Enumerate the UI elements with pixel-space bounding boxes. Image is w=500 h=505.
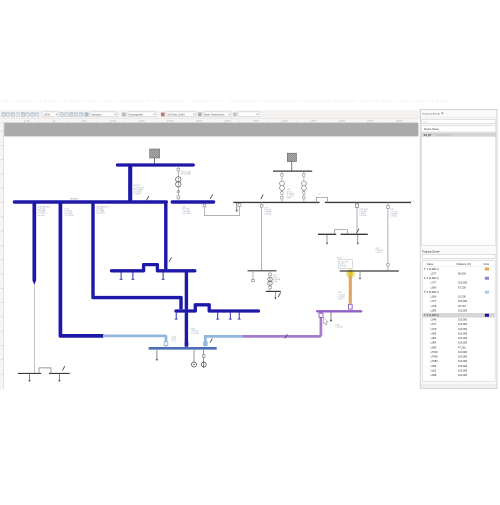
machine M1: [201, 350, 206, 368]
svg-text:R1_B7: R1_B7: [337, 258, 343, 260]
toolbar: [0, 110, 497, 118]
svg-text:100,000: 100,000: [458, 322, 468, 326]
svg-text:N2: N2: [412, 201, 414, 203]
busbar B10 (HV feed): [273, 170, 312, 172]
external grid symbol N2: [287, 153, 296, 171]
svg-text:100,000: 100,000: [458, 327, 468, 331]
svg-text:Protection Results: Protection Results: [422, 113, 441, 116]
label under B6: [335, 324, 343, 328]
svg-text:2 (0,300 s): 2 (0,300 s): [427, 276, 439, 280]
svg-text:Ik 2,8 kA: Ik 2,8 kA: [339, 265, 346, 268]
svg-text:Q 4 Mvar: Q 4 Mvar: [265, 213, 272, 216]
busbar B1 (110kV station A): [118, 163, 194, 166]
svg-text:P 1,7: P 1,7: [172, 341, 176, 343]
line L077 light blue segment west: [103, 336, 166, 347]
svg-text:L079: L079: [431, 327, 437, 331]
connector box light blue west: [164, 342, 168, 346]
svg-text:100,000: 100,000: [458, 299, 468, 303]
svg-text:Standard: Standard: [91, 113, 102, 116]
svg-text:L046: L046: [431, 318, 437, 322]
svg-text:L078: L078: [431, 304, 437, 308]
load drops under B4: [175, 313, 177, 320]
svg-text:SrT 40 MVA: SrT 40 MVA: [181, 172, 191, 175]
label bay B1: [134, 185, 145, 195]
svg-text:100 Netz 110kV: 100 Netz 110kV: [167, 113, 185, 116]
svg-text:L098: L098: [431, 373, 437, 377]
switch above B8 at feeder F1: [261, 195, 264, 199]
svg-text:L077: L077: [431, 299, 437, 303]
svg-text:5500: 5500: [369, 120, 375, 122]
label feeder V1: [38, 205, 51, 216]
switch on B2 left: [146, 196, 149, 200]
svg-text:3500: 3500: [254, 120, 260, 122]
generator G1: [192, 350, 197, 367]
svg-text:Distance (%): Distance (%): [457, 263, 471, 266]
load arrow under B5: [156, 350, 158, 359]
label V10: [359, 209, 369, 217]
svg-text:L080: L080: [431, 331, 437, 335]
switch on V4: [169, 257, 172, 261]
wire V5 B3 to B4: [185, 271, 188, 310]
svg-text:LT080: LT080: [431, 359, 439, 363]
svg-text:4500: 4500: [312, 120, 318, 122]
svg-text:Q 2 Mvar: Q 2 Mvar: [359, 214, 366, 217]
label feeder V3: [96, 205, 109, 214]
svg-text:Q 2,2 Mvar: Q 2,2 Mvar: [65, 215, 74, 217]
label left of V6: [172, 336, 177, 342]
svg-text:100,000: 100,000: [458, 336, 468, 340]
busbar B9: [248, 270, 277, 272]
fault glow on busbar B7: [345, 268, 356, 279]
label V9 top: [390, 209, 398, 217]
sub busbar S1 left: [18, 372, 41, 374]
svg-text:LT046: LT046: [431, 355, 439, 359]
label chain B9: [273, 275, 281, 283]
svg-text:I 0,04 kA: I 0,04 kA: [335, 326, 343, 329]
svg-text:26,710: 26,710: [458, 304, 466, 308]
transformer chain TxA: [280, 172, 285, 202]
label V9 bottom: [376, 248, 384, 254]
svg-text:Q 3 Mvar: Q 3 Mvar: [390, 215, 397, 218]
switch on B2 right: [210, 194, 213, 198]
switch at S1: [62, 366, 65, 370]
switch near B5: [210, 338, 213, 342]
feeder V3 (L080 west): [93, 202, 181, 309]
load arrow under B6: [330, 313, 332, 320]
svg-text:Distance Zone 4: Distance Zone 4: [436, 134, 452, 137]
combo network variant: [161, 112, 196, 117]
svg-text:100,000: 100,000: [458, 355, 468, 359]
switch on B11 right: [357, 229, 360, 233]
svg-text:t 1,20 s: t 1,20 s: [338, 298, 344, 301]
busbar B6 (purple station): [317, 310, 361, 312]
feeder V9 B8 to B7: [387, 202, 390, 270]
coupler jog between S1 segments: [39, 368, 51, 374]
svg-text:L084: L084: [431, 341, 437, 345]
svg-text:R1_B7: R1_B7: [424, 134, 432, 137]
svg-text:uk 6%: uk 6%: [273, 281, 278, 283]
svg-text:Device Name: Device Name: [424, 128, 440, 131]
svg-text:100,000: 100,000: [458, 368, 468, 372]
svg-text:80,000: 80,000: [458, 271, 466, 275]
wire V6 B4 to B5: [185, 313, 188, 347]
label feeder V2: [65, 209, 74, 217]
label left of orange line: [338, 292, 346, 300]
svg-text:3000: 3000: [226, 120, 232, 122]
svg-text:u 99,2 %: u 99,2 %: [376, 252, 383, 254]
svg-text:Name: Name: [427, 263, 434, 266]
load drop under B11: [326, 235, 328, 243]
svg-text:Schutzgeräte: Schutzgeräte: [128, 113, 143, 116]
svg-text:100,000: 100,000: [458, 373, 468, 377]
combo Schutzgeraete: [122, 112, 156, 117]
svg-text:Color: Color: [483, 263, 489, 266]
svg-text:100,000: 100,000: [458, 341, 468, 345]
svg-text:1000: 1000: [111, 120, 117, 122]
svg-text:L069: L069: [431, 295, 437, 299]
svg-text:4 (1,200 s): 4 (1,200 s): [427, 313, 439, 317]
connector box orange to purple: [348, 304, 352, 309]
toolbar icon cluster 2: [60, 113, 87, 117]
label F1: [265, 207, 273, 215]
connector box V6 on B5: [185, 342, 189, 346]
mouse cursor: [324, 318, 329, 326]
label feeder B2R: [182, 207, 191, 215]
switch on purple line: [285, 334, 288, 338]
svg-text:L080: L080: [431, 285, 437, 289]
svg-text:100,000: 100,000: [458, 359, 468, 363]
load arrow under S1 right: [58, 374, 60, 380]
external grid symbol N1: [150, 149, 160, 163]
svg-text:SS 20kV: SS 20kV: [70, 198, 78, 200]
load drops under B3: [120, 272, 122, 279]
combo Basis Netzbereich: [198, 112, 231, 117]
svg-text:LT006: LT006: [431, 350, 439, 354]
feeder F1 B8 to B9: [261, 202, 263, 270]
svg-text:6000: 6000: [397, 120, 403, 122]
svg-text:Q 1,0 Mvar: Q 1,0 Mvar: [182, 213, 191, 215]
busbar B12 (LV): [266, 290, 281, 292]
label T1: [181, 171, 191, 175]
busbar B3 with section jog: [112, 265, 195, 271]
switch at B12: [278, 293, 281, 297]
svg-text:100,000: 100,000: [458, 308, 468, 312]
svg-text:cos 0,96: cos 0,96: [38, 215, 45, 217]
svg-text:3 (0,600 s): 3 (0,600 s): [427, 290, 439, 294]
feeder V1 (L046): [32, 202, 36, 281]
svg-text:47,281: 47,281: [458, 345, 466, 349]
svg-text:100,000: 100,000: [458, 318, 468, 322]
label right of V6: [191, 329, 199, 335]
feeder V10 B8 to B11: [356, 202, 358, 234]
svg-text:P 2,6 MW: P 2,6 MW: [191, 333, 199, 335]
svg-text:Q 1,6 Mvar: Q 1,6 Mvar: [96, 213, 105, 215]
svg-text:67,200: 67,200: [458, 285, 466, 289]
busbar B8 (HV main) with jog: [233, 201, 319, 203]
sub busbar S1 right: [49, 372, 70, 374]
canvas margin band: [4, 123, 418, 137]
distribution transformer chain under B9: [268, 271, 272, 291]
line L078 purple segment: [242, 312, 321, 336]
svg-text:Tripping Zones: Tripping Zones: [422, 249, 440, 253]
vertical ruler: [0, 123, 4, 389]
wire V0 busbar B1 to busbar B2: [128, 165, 132, 202]
svg-text:Filter: Filter: [423, 121, 428, 124]
label between transformers: [287, 189, 295, 199]
svg-text:1 (0,000 s): 1 (0,000 s): [427, 267, 439, 271]
wire grey continuation of V1: [33, 285, 35, 373]
tie wire navy B2R to B8: [203, 203, 241, 216]
feeder V2 (L077 west): [60, 202, 103, 336]
feeder V4 (to busbar B3): [164, 202, 167, 269]
busbar B5 (station light blue): [149, 347, 217, 350]
zoom combo 100%: [42, 112, 58, 117]
svg-text:2000: 2000: [169, 120, 175, 122]
svg-text:L082: L082: [431, 336, 437, 340]
tripping zones table rows: [423, 267, 495, 377]
combo Standard: [85, 112, 117, 117]
busbar B7: [340, 270, 399, 272]
line L082 orange segment: [349, 276, 352, 304]
svg-text:100,000: 100,000: [458, 281, 468, 285]
svg-text:100,000: 100,000: [458, 350, 468, 354]
svg-text:L077: L077: [431, 271, 437, 275]
svg-text:2500: 2500: [197, 120, 203, 122]
svg-text:L085: L085: [431, 345, 437, 349]
connector box light blue east: [204, 342, 208, 346]
svg-text:100,000: 100,000: [458, 364, 468, 368]
busbar B2 right segment: [172, 200, 213, 203]
svg-text:Basis Netzbereich: Basis Netzbereich: [204, 113, 225, 116]
load arrow at B8 left end: [236, 203, 238, 210]
svg-text:1500: 1500: [140, 120, 146, 122]
busbar B4 with section jog: [176, 305, 258, 311]
svg-text:YNd5: YNd5: [287, 198, 291, 200]
load drop under B9: [252, 271, 254, 279]
connector box on purple riser: [319, 313, 323, 317]
combo empty: [233, 112, 259, 117]
svg-text:16,200: 16,200: [458, 295, 466, 299]
svg-text:-500: -500: [26, 120, 31, 122]
transformer T1 feeder: [176, 167, 181, 200]
svg-text:La02: La02: [431, 368, 437, 372]
svg-text:L089: L089: [431, 364, 437, 368]
load arrow under B12: [274, 292, 276, 297]
load arrow under S1 left: [29, 374, 31, 380]
line L077 light blue segment east: [205, 336, 242, 346]
svg-text:I 0,36 kA: I 0,36 kA: [134, 193, 142, 196]
svg-text:100,000: 100,000: [458, 331, 468, 335]
svg-text:L080: L080: [431, 308, 437, 312]
horizontal ruler: [0, 118, 418, 122]
svg-text:L077: L077: [431, 322, 437, 326]
transformer chain TxB: [302, 172, 307, 202]
svg-text:Q12: Q12: [318, 194, 321, 196]
svg-text:100%: 100%: [44, 112, 51, 116]
svg-text:5000: 5000: [340, 120, 346, 122]
svg-text:4000: 4000: [283, 120, 289, 122]
busbar B11 with jog: [318, 233, 336, 235]
toolbar icon cluster 1: [2, 113, 39, 117]
load drop under B7: [359, 272, 361, 279]
busbar B2 left segment: [15, 200, 167, 203]
svg-text:L077: L077: [431, 281, 437, 285]
